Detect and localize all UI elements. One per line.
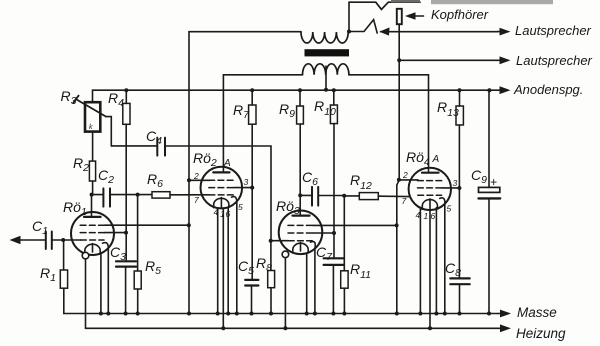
tube Roe1 envelope [71, 212, 114, 255]
wire R12 line from junction [344, 195, 359, 197]
svg-text:A: A [432, 154, 440, 165]
arrow to Heizung [498, 327, 503, 329]
node input grid junction [61, 238, 65, 242]
wire R7 down through screen node to C5 [251, 124, 253, 280]
tube Roe3 envelope [279, 211, 323, 255]
wire R12 to Roe4 grid1 [378, 195, 409, 198]
wire C8 to Masse [459, 284, 461, 313]
wire primary right lead to Roe4 anode [349, 75, 429, 173]
resistor R12 [359, 193, 378, 200]
wire C3 to Masse [125, 267, 127, 314]
svg-text:3: 3 [453, 178, 458, 188]
capacitor C7 [324, 258, 344, 265]
tube Roe4 pin5 curve [440, 198, 445, 205]
svg-text:3: 3 [244, 177, 249, 187]
resistor R13 [456, 106, 463, 125]
capacitor C1 [46, 232, 52, 250]
resistor R4 [123, 103, 130, 124]
wire Roe3 pin5 to Masse [314, 248, 316, 313]
tube Roe1 heater terminal circle [82, 252, 89, 259]
arrow to Lautsprecher (lower) [498, 59, 503, 61]
wire R6 to Roe2 grid1 [170, 194, 209, 196]
wire Masse bus [64, 313, 498, 315]
wire Roe3 heater to Heizung [284, 258, 286, 329]
wire Roe3 pin to Masse [306, 253, 308, 313]
node rail R7 [250, 88, 254, 92]
wire Roe3 grid3 to jack line junction [313, 224, 397, 226]
capacitor C3 [116, 261, 136, 266]
tube Roe1 anode bar [84, 216, 101, 218]
svg-text:5: 5 [447, 204, 452, 214]
svg-text:6: 6 [431, 211, 436, 221]
wire C9 to Masse [488, 198, 490, 313]
svg-text:4: 4 [416, 210, 421, 220]
wire node to C6 [300, 194, 312, 196]
node Roe3 screen node [332, 231, 336, 235]
resistor R6 [152, 192, 170, 198]
node C6/R12/R11 junction [342, 194, 346, 198]
node switch junction [347, 30, 351, 34]
node Roe4 screen node [457, 186, 461, 190]
potentiometer R3 body [85, 102, 100, 131]
wire junction down to R1 [63, 240, 65, 270]
svg-text:2: 2 [193, 171, 199, 181]
node Roe3 grid3 tie-in [395, 223, 399, 227]
switch S1 arrowhead on blade [380, 27, 390, 35]
wire Roe1 grid3 to ground line [104, 224, 188, 226]
capacitor C6 [312, 187, 318, 206]
wire Lautsprecher lower line [399, 59, 497, 61]
wire node to C2 [92, 194, 104, 196]
node rail R4 [124, 88, 128, 92]
wire Roe2 pin1 to Heizung [222, 208, 224, 328]
wire Roe4 grid2 to R13 [442, 187, 460, 189]
wire C4 line [111, 145, 157, 147]
arrow to Anodenspg. [489, 89, 502, 91]
tube Roe4 grid rows (dashed) [418, 181, 442, 196]
resistor R7 [249, 105, 256, 124]
wire Roe1 grid2 to R4/C3 node [104, 232, 126, 234]
node Masse R1..C9 junction dots [99, 312, 491, 316]
svg-text:1: 1 [424, 211, 429, 221]
wire Roe4 pin1 to Heizung [429, 210, 431, 328]
node rail R9 [298, 88, 302, 92]
svg-text:6: 6 [226, 209, 231, 219]
wire Roe3 anode lead up to R9/C6 node [299, 195, 301, 215]
wire primary left lead to Roe2 anode [223, 75, 302, 173]
svg-text:Heizung: Heizung [516, 326, 566, 341]
wire secondary left lead [189, 31, 301, 33]
resistor R5 [134, 271, 141, 289]
wire secondary ground line down (x=189) [188, 32, 190, 314]
scan artifact gray bar top right [431, 0, 553, 4]
wire Roe1 anode lead up [91, 195, 93, 217]
wire stub to Roe2 grid3 [189, 179, 210, 181]
wire C6 to R12 node [318, 195, 344, 197]
tube Roe3 anode bar [293, 215, 310, 217]
wire R3 wiper to C4 line [106, 117, 111, 146]
svg-text:2: 2 [402, 170, 408, 180]
tube Roe4 heater line pin1 [429, 199, 431, 210]
wire Roe3 grid2 to R10 [313, 232, 334, 234]
wire Roe4 pin4 to Masse [419, 207, 421, 313]
wire rail to R9 [299, 90, 301, 106]
tube Roe1 heater line [92, 244, 94, 253]
wire node down to R8 [270, 241, 272, 271]
svg-text:7: 7 [402, 196, 407, 206]
tube Roe4 anode bar [422, 172, 439, 174]
tube Roe2 anode bar [213, 171, 229, 173]
svg-text:Anodenspg.: Anodenspg. [513, 82, 583, 97]
wire R10 down through screen node to C7 [333, 124, 335, 259]
wire C1 to Roe1 grid1 [52, 239, 81, 241]
tube Roe2 pin5 curve [232, 197, 237, 204]
node rail R13 [458, 88, 462, 92]
node rail C9 [487, 88, 491, 92]
svg-text:5: 5 [238, 202, 243, 212]
tube Roe3 heater terminal circle [282, 251, 289, 258]
node anode/C6 junction [298, 193, 302, 197]
wire Roe1 pin5 to Masse [107, 249, 109, 313]
wire jack stem down [398, 24, 400, 60]
node Heizung junction dots [221, 326, 432, 330]
node junction to Roe1 grid3 line [187, 223, 191, 227]
wire rail to R10 [333, 90, 335, 105]
scan artifact dark bar segment [391, 0, 420, 3]
potentiometer R3 wiper arrow [73, 96, 106, 117]
svg-text:k: k [89, 124, 93, 131]
svg-text:Lautsprecher: Lautsprecher [516, 53, 593, 68]
node grid2 screen junction [124, 231, 128, 235]
tube Roe3 grid rows (dashed) [288, 225, 313, 240]
capacitor C9 electrolytic plus plate [479, 187, 500, 192]
wire junction down to R11 [343, 196, 345, 271]
tube Roe2 grid rows (dashed) [209, 180, 234, 195]
transformer T1 primary winding (bottom) [303, 64, 349, 75]
transformer T1 secondary winding (top) [301, 32, 349, 44]
node Lautsprecher lower takeoff [397, 58, 401, 62]
capacitor C2 [103, 188, 110, 206]
wire top line to jack spring contact [349, 2, 420, 9]
arrow to Masse [498, 313, 503, 315]
wire Roe4 pin5 to Masse [444, 205, 446, 314]
wire R13 down through screen node to C8 [458, 125, 460, 278]
resistor R11 [341, 271, 348, 288]
node Roe2 screen node [250, 186, 254, 190]
node R5 takeoff [136, 193, 140, 197]
tube Roe2 envelope [201, 167, 243, 209]
tube Roe4 cathode arch [422, 200, 437, 210]
wire Roe2 pin4 to Masse [217, 208, 219, 314]
wire rail to R7 [251, 90, 253, 105]
wire C4 to Roe3 grid1 [165, 146, 271, 241]
wire R4 down to grid2 node and C3 [125, 124, 127, 261]
wire R1 to Masse bus corner [63, 288, 65, 313]
tube Roe2 heater line pin1 [220, 198, 222, 209]
svg-text:4: 4 [214, 207, 219, 217]
svg-text:Masse: Masse [517, 305, 557, 320]
wire Anodenspannung rail [93, 90, 490, 102]
wire C9 from rail down [488, 90, 490, 187]
arrow input (left) [18, 239, 46, 241]
tube Roe1 grid rows (dashed) [80, 225, 104, 240]
wire R5 to Masse [137, 289, 139, 314]
svg-text:+: + [490, 175, 497, 189]
tube Roe1 cathode arch [85, 244, 100, 254]
arrow pointing to jack (Kopfhoerer callout) [413, 15, 424, 17]
tube Roe3 heater line [300, 243, 302, 252]
wire grid1 node into tube [271, 240, 289, 242]
transformer T1 core [305, 49, 350, 56]
resistor R9 [297, 106, 304, 124]
capacitor C5 [245, 280, 258, 286]
wire Roe1 heater to Heizung corner [85, 259, 87, 328]
wire R3 to R2 [92, 132, 94, 162]
resistor R1 [60, 270, 67, 288]
wire stub to Roe4 grid3 [399, 179, 418, 181]
wire Lautsprecher upper line [381, 31, 498, 33]
wire Roe2 grid2 to R7 [234, 187, 253, 189]
resistor R2 [89, 161, 95, 181]
wire primary center tap to rail [325, 66, 327, 90]
jack Kopfhoerer (phone jack) [397, 9, 402, 24]
capacitor C8 [450, 278, 469, 284]
svg-text:Kopfhörer: Kopfhörer [431, 7, 489, 22]
node rail R10 [332, 88, 336, 92]
wire R2 to anode node [92, 181, 94, 195]
tube Roe3 cathode arch [293, 243, 308, 253]
wire rail to R4 [125, 90, 127, 103]
wire jack line continues down to Masse [397, 180, 399, 314]
wire Roe4 pin6 to Masse [435, 208, 437, 314]
wire R11 to Masse [343, 288, 345, 313]
wire R8 to Masse [270, 288, 272, 314]
svg-text:7: 7 [194, 195, 199, 205]
svg-text:1: 1 [220, 209, 225, 219]
node Roe4 grid3 junction [397, 178, 401, 182]
wire jack line down to Roe4 grid3 node [398, 60, 400, 180]
svg-text:Lautsprecher: Lautsprecher [515, 23, 592, 38]
wire Heizung bus [86, 327, 499, 329]
wire C7 to Masse [332, 265, 334, 314]
wire C5 to Masse [251, 286, 253, 314]
node rail transformer center tap [324, 88, 328, 92]
wire C2 to R6 [110, 194, 152, 196]
node Roe3 grid1 / R8 junction [269, 239, 273, 243]
wire Roe2 pin5 to Masse [236, 204, 238, 314]
tube Roe2 cathode arch [214, 198, 229, 207]
switch S1 blade with spike [349, 20, 377, 33]
wire Roe2 pin6 to Masse [227, 208, 229, 314]
tube Roe4 envelope [409, 168, 451, 210]
arrow to Lautsprecher (upper) [498, 31, 503, 33]
resistor R10 [330, 105, 337, 124]
tube Roe3 pin5 curve [311, 242, 316, 249]
svg-text:A: A [223, 158, 231, 169]
wire Roe1 pin to Masse [100, 253, 102, 314]
capacitor C9 minus plate [479, 197, 501, 199]
node anode / C2 junction [90, 193, 94, 197]
node Roe2 grid3 junction [187, 178, 191, 182]
wire R5 node down [137, 195, 139, 271]
capacitor C4 [157, 138, 165, 156]
tube Roe1 pin5 curve [103, 243, 109, 250]
wire R9 down to anode node [299, 124, 301, 195]
wire from top contact down to switch node [348, 2, 350, 31]
resistor R8 [268, 271, 275, 288]
wire rail to R13 [459, 90, 461, 106]
